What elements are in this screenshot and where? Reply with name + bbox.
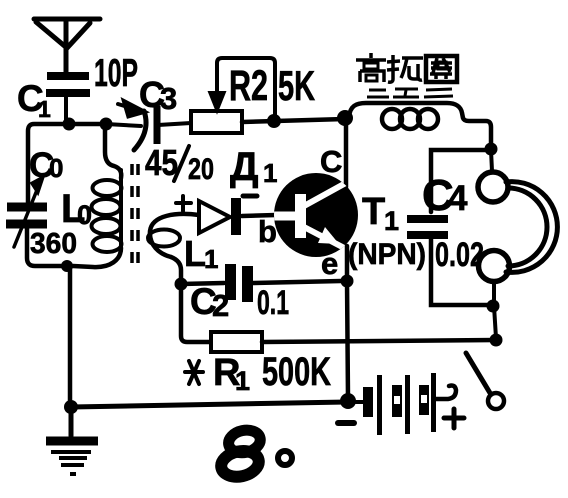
node F: [490, 334, 503, 347]
svg-text:1: 1: [235, 366, 250, 396]
label asterisk: [185, 361, 203, 384]
transistor T1: [270, 173, 358, 257]
small circle after 8: [278, 451, 292, 465]
node D: [485, 143, 498, 156]
svg-text:0: 0: [49, 153, 63, 183]
svg-text:3: 3: [160, 81, 177, 116]
label D1 (Cyrillic): [230, 145, 277, 189]
wire G1 to L0 bottom: [73, 248, 121, 267]
svg-text:0: 0: [77, 200, 92, 230]
earphone bottom earpiece: [479, 251, 510, 282]
earphone top earpiece: [478, 172, 508, 202]
svg-text:e: e: [321, 246, 338, 281]
wire C2 to emitter node: [253, 281, 341, 283]
label 0.02: [435, 236, 484, 274]
svg-text:L: L: [184, 233, 206, 274]
label plus (detector input): [176, 196, 191, 211]
label minus (battery): [338, 420, 354, 426]
label plus (battery): [444, 409, 464, 428]
core dashed lines: [132, 164, 138, 264]
label minus (diode cathode): [243, 194, 257, 199]
label C4: [422, 171, 468, 220]
label b: [258, 214, 277, 249]
wire node D to earpiece: [491, 150, 492, 171]
wire R1 to node F: [262, 340, 496, 342]
antenna: [34, 19, 100, 73]
svg-text:20: 20: [188, 153, 214, 186]
label R1: [213, 352, 250, 396]
wire emitter node to battery minus node: [347, 281, 348, 398]
wire node B down to L0 top: [105, 130, 121, 178]
label C2: [190, 281, 229, 323]
svg-text:0.1: 0.1: [257, 284, 289, 322]
switch lever: [466, 353, 490, 393]
wire emitter down: [345, 246, 350, 281]
label 10P: [94, 52, 138, 95]
svg-text:4: 4: [448, 179, 468, 218]
earphone band arcs: [506, 182, 557, 273]
diode D1: [199, 198, 236, 235]
wire C3 to R2: [158, 123, 191, 125]
resistor R1 body: [211, 332, 262, 352]
wire bottom rail ground to battery minus: [71, 402, 347, 407]
svg-text:(NPN): (NPN): [348, 238, 426, 271]
switch contact: [488, 393, 504, 409]
RF choke coil: [349, 103, 491, 146]
wire node A to C0 branch: [28, 124, 104, 203]
ground: [46, 407, 98, 474]
svg-text:1: 1: [38, 96, 51, 122]
trimmer capacitor C3: [118, 100, 157, 150]
wire to battery: [348, 400, 363, 404]
label L0: [61, 187, 92, 231]
battery B1: [363, 373, 436, 435]
figure number 8 logo: [215, 427, 267, 480]
svg-text:Д: Д: [230, 145, 259, 189]
node A: [63, 118, 76, 131]
svg-text:10P: 10P: [94, 52, 138, 95]
node battery minus: [340, 393, 356, 409]
coil L1: [148, 214, 199, 281]
label 45/20: [145, 142, 214, 186]
node emitter junction: [341, 275, 354, 288]
core marks under choke label: [367, 89, 453, 97]
wire C0 to bottom corner: [27, 228, 61, 266]
svg-text:2: 2: [212, 288, 229, 323]
wire earpiece to node E: [492, 282, 496, 303]
svg-text:500K: 500K: [262, 350, 331, 394]
label 360: [30, 228, 77, 260]
label 500K: [262, 350, 331, 394]
svg-text:b: b: [258, 214, 277, 249]
svg-text:1: 1: [384, 206, 399, 236]
node L1 bottom: [175, 278, 188, 291]
potentiometer R2 body: [191, 111, 242, 133]
label C1: [17, 78, 51, 122]
wire node D to C4 top: [431, 150, 491, 212]
label L1: [184, 233, 218, 274]
inductor L0: [92, 170, 122, 252]
wire L1 node down to R1: [181, 284, 211, 342]
wire battery plus hook: [436, 386, 456, 400]
wire diode to base: [242, 215, 276, 216]
node G1: [61, 260, 73, 272]
svg-text:5K: 5K: [278, 62, 315, 109]
label e: [321, 246, 338, 281]
node E: [487, 300, 500, 313]
wire C4 bottom to node E: [431, 239, 488, 305]
wire node E to node F: [494, 306, 496, 338]
svg-text:1: 1: [204, 244, 218, 274]
svg-text:45: 45: [145, 142, 178, 183]
label C0: [29, 146, 63, 185]
variable capacitor C0: [6, 176, 47, 247]
ground node: [64, 400, 78, 414]
label 高扼圈 (hand drawn): [356, 53, 457, 82]
wire node B to C3: [106, 124, 141, 126]
wire collector: [344, 125, 349, 187]
label R2: [229, 62, 268, 110]
wire C1 to node A: [64, 97, 68, 122]
label 0.1: [257, 284, 289, 322]
svg-text:C: C: [320, 144, 342, 179]
wire R2 to node C: [242, 119, 345, 122]
node R2 wiper junction: [267, 114, 281, 128]
capacitor C2: [225, 264, 253, 302]
capacitor C4: [407, 219, 448, 235]
label T1: [362, 191, 399, 236]
label (NPN): [348, 238, 426, 271]
node C (collector net): [337, 110, 353, 126]
wire L1 bottom to C2: [181, 283, 224, 284]
wire G1 down to ground: [68, 266, 73, 402]
svg-text:R2: R2: [229, 62, 268, 110]
capacitor C1: [46, 76, 90, 93]
svg-text:T: T: [362, 191, 385, 233]
label C (collector): [320, 144, 342, 179]
svg-text:1: 1: [263, 158, 277, 188]
potentiometer R2 wiper arm: [209, 58, 275, 119]
node B: [100, 118, 113, 131]
label 5K: [278, 62, 315, 109]
svg-text:360: 360: [30, 228, 77, 260]
label C3: [139, 74, 177, 116]
